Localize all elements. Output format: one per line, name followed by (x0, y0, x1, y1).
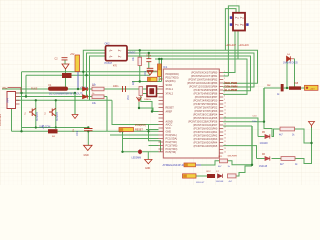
svg-text:+5V: +5V (159, 79, 164, 81)
hub resistor R3 label (133, 56, 135, 61)
wire chainB staircase (236, 166, 252, 176)
net label yellow top right (305, 85, 319, 90)
ground GND2 (145, 160, 152, 164)
svg-text:100n: 100n (146, 56, 152, 58)
svg-text:(PCINT24/RXD0)PD0: (PCINT24/RXD0)PD0 (193, 100, 218, 103)
svg-text:IC1: IC1 (163, 65, 168, 69)
svg-text:15: 15 (224, 120, 226, 122)
wire J2 pin4 down (237, 31, 239, 60)
svg-text:24: 24 (224, 152, 226, 154)
svg-text:17: 17 (224, 127, 226, 129)
svg-text:+5VDC: +5VDC (128, 53, 136, 55)
svg-text:PC0(SCL): PC0(SCL) (166, 134, 178, 137)
wire net bundle line 3 (90, 56, 251, 100)
adapter caption blue (49, 93, 83, 96)
svg-text:(PCINT8/XCK0/T0)PB0: (PCINT8/XCK0/T0)PB0 (191, 72, 218, 75)
chainB blue label (196, 182, 205, 184)
wire diode D4 parallel left leg (286, 59, 289, 88)
wire row y135 (110, 134, 159, 136)
svg-text:OK2: OK2 (105, 43, 111, 46)
LED LED1 label (132, 158, 142, 160)
svg-text:16: 16 (224, 124, 226, 126)
svg-text:(PCINT15/SCK)PB7: (PCINT15/SCK)PB7 (195, 96, 218, 99)
wire connector row0 (16, 92, 75, 94)
svg-text:PC6(RST): PC6(RST) (135, 124, 146, 127)
wire GND3 drop (74, 93, 76, 114)
svg-text:PC5(TDI): PC5(TDI) (166, 151, 177, 154)
crystal labels (133, 80, 135, 85)
wire emitter rail (22, 127, 89, 129)
connector J2 side labels (230, 16, 249, 26)
connector J1 pin stubs (16, 93, 20, 104)
wire blue label2 link (196, 164, 201, 166)
capacitor C1 mid row (123, 86, 126, 92)
wire row1 to row2 jog (295, 143, 312, 164)
transistor T2 (49, 108, 56, 116)
crystal caps C5 C6 (139, 87, 143, 96)
svg-text:GND: GND (84, 155, 89, 157)
hub capacitor C3 label (146, 56, 152, 58)
resistor R15 top right (289, 86, 301, 89)
wire mid row y75.2 (26, 74, 150, 76)
ground GND1 (84, 145, 93, 150)
regulator block power col (62, 73, 72, 78)
svg-text:22: 22 (224, 145, 226, 147)
svg-text:XTAL2: XTAL2 (166, 93, 174, 96)
svg-text:14: 14 (224, 117, 226, 119)
wire IC right pin y145.6 to D6 (223, 146, 256, 159)
crystal Q1 (147, 86, 157, 97)
supply label yellow vertical power col (75, 55, 80, 72)
blue vertical text x43.5 (43, 124, 45, 129)
svg-text:13: 13 (224, 113, 226, 115)
svg-text:BC547B: BC547B (56, 112, 59, 121)
svg-text:R15: R15 (294, 83, 299, 85)
svg-text:BC547B: BC547B (36, 112, 39, 121)
wire hub drop x139.75 (139, 50, 141, 81)
svg-text:(PCINT19/ADC3)PA3: (PCINT19/ADC3)PA3 (193, 138, 217, 141)
transistor T2 labels (56, 112, 59, 121)
red bracket above J1 (8, 88, 22, 92)
diode D1 power col (62, 64, 69, 69)
connector J1 name vertical (0, 114, 2, 126)
svg-text:▹⊢: ▹⊢ (109, 55, 112, 59)
vertical element label (277, 94, 280, 96)
svg-text:(PCINT16/ADC0)PA0: (PCINT16/ADC0)PA0 (193, 128, 217, 131)
wire connector row2 (16, 99, 112, 101)
net flag yellow horizontal hub (148, 77, 158, 81)
svg-text:16MHz: 16MHz (144, 99, 151, 101)
resistor R4 bottom rail (48, 129, 58, 133)
svg-text:(PCINT14/MISO)PB6: (PCINT14/MISO)PB6 (194, 93, 218, 96)
svg-text:GND-COM: GND-COM (39, 127, 50, 129)
wire R row1 right (295, 129, 312, 143)
svg-text:+24V: +24V (244, 45, 250, 47)
diode D4 label (283, 63, 298, 65)
resistor R12 chainB (207, 174, 215, 178)
resistor R11 chainA (220, 159, 228, 163)
svg-text:RESET: RESET (135, 129, 144, 132)
svg-text:(PCINT27/INT1)PD3: (PCINT27/INT1)PD3 (194, 110, 218, 113)
supply flag VCC x139 (137, 97, 142, 102)
net label PWM red row3 (225, 88, 238, 92)
svg-text:21: 21 (224, 141, 226, 143)
wire led branch vertical (123, 131, 139, 152)
svg-text:1N4148 DO35: 1N4148 DO35 (283, 63, 298, 65)
svg-text:GRN-PWM: GRN-PWM (225, 85, 238, 89)
IC U1 pin names left column (166, 73, 179, 154)
net label PWM red row1 (225, 81, 238, 85)
svg-text:VIN+: VIN+ (2, 87, 8, 90)
wire net bundle line 2 (87, 53, 255, 97)
diode D6 (265, 156, 270, 160)
svg-text:VCC: VCC (166, 127, 171, 130)
svg-text:10: 10 (224, 103, 226, 105)
svg-text:20: 20 (224, 138, 226, 140)
connector J1 inner label (7, 98, 10, 103)
net flag yellow vertical hub (158, 64, 162, 77)
resistor R2 red text (92, 93, 95, 95)
blue text above OK right (128, 53, 136, 55)
svg-text:⊢9: ⊢9 (235, 23, 239, 27)
wire T1 collector-emitter (35, 100, 37, 127)
svg-text:(PCINT26/INT0)PD2: (PCINT26/INT0)PD2 (194, 107, 218, 110)
wire net bundle line 4 (155, 59, 247, 94)
capacitor C2 power col (62, 58, 68, 60)
supply flag VCC label (128, 95, 130, 100)
ground GND2 text (145, 168, 150, 170)
svg-text:XTAL1: XTAL1 (166, 88, 174, 91)
wire bottom rail y131 (12, 130, 159, 132)
wire hub cap drop (148, 53, 150, 68)
svg-text:FUSE: FUSE (31, 88, 38, 91)
wire chainB left link (196, 175, 207, 177)
wire R row2 left (272, 158, 282, 160)
svg-text:VCC: VCC (128, 95, 130, 100)
svg-text:(PCINT10/INT2/AIN0)PB2: (PCINT10/INT2/AIN0)PB2 (188, 79, 218, 82)
svg-text:⊢9: ⊢9 (240, 23, 244, 27)
svg-text:11: 11 (224, 106, 226, 108)
resistor R14 labels (280, 164, 298, 166)
wire flag stem (311, 127, 313, 143)
resistor R2 (92, 95, 104, 99)
wire xtal gnd jog (141, 96, 152, 112)
chainB D7 red label (216, 171, 220, 173)
wire net VCC bundle line 1 (83, 50, 257, 89)
wire IC right pin y121.7 to riser (223, 121, 264, 123)
wire J2 pin3 down to IC (223, 31, 235, 73)
diode DA row1 left (83, 87, 88, 91)
svg-text:8: 8 (224, 96, 225, 98)
net label RESET red text (135, 124, 146, 132)
wire hub row y81.5 (132, 81, 162, 83)
hub tantal C4 (147, 68, 154, 75)
svg-text:⊢▹: ⊢▹ (118, 55, 121, 59)
wire D6 left (257, 158, 265, 160)
svg-text:100u: 100u (145, 70, 147, 76)
capacitor C1 red text (113, 85, 119, 88)
IC U1 body (163, 69, 219, 158)
svg-text:GND: GND (166, 131, 172, 134)
hub capacitor C3 (146, 59, 151, 62)
svg-text:(PCINT25/TXD0)PD1: (PCINT25/TXD0)PD1 (193, 103, 218, 106)
svg-text:(PCINT11/OC0A/AIN1)PB3: (PCINT11/OC0A/AIN1)PB3 (187, 82, 218, 85)
wire diode D4 parallel right leg (293, 59, 296, 88)
svg-text:SW-LGT: SW-LGT (196, 182, 205, 184)
IC U1 value label (163, 163, 189, 167)
wire vertical x21.5 (21, 72, 23, 132)
wire branch J2 vertical b (223, 6, 239, 76)
svg-text:100n: 100n (77, 130, 79, 136)
svg-text:1N4148: 1N4148 (259, 166, 268, 168)
svg-text:DC CONVERTER IN 9V(OUT): DC CONVERTER IN 9V(OUT) (49, 93, 83, 96)
wire riser x264 (263, 88, 265, 122)
net label yellow chainA (184, 163, 196, 167)
IC U1 pin numbers right (224, 71, 226, 154)
svg-text:(PCINT21/ADC5)PA5: (PCINT21/ADC5)PA5 (193, 145, 217, 148)
svg-text:(PCINT30/OC2B/ICP)PD6: (PCINT30/OC2B/ICP)PD6 (188, 121, 218, 124)
hub resistor R3 vertical (138, 57, 142, 65)
resistor R12 label red (207, 171, 212, 173)
wire blue supply drop x78 (77, 72, 79, 90)
svg-text:PC1(SDA): PC1(SDA) (166, 138, 178, 141)
connector J2 pin glyphs (235, 16, 244, 27)
wire connector row1 (16, 96, 107, 98)
wire input rail y89 (2, 88, 159, 90)
resistor R11 labels (218, 166, 231, 168)
vertical element top right (281, 84, 284, 91)
svg-text:SCK0: SCK0 (166, 84, 173, 87)
wire hub yellow vert drop (158, 59, 160, 82)
svg-text:(PCINT29/OC1A)PD5: (PCINT29/OC1A)PD5 (193, 117, 218, 120)
svg-text:PC3(TMS): PC3(TMS) (166, 145, 178, 148)
diode D7 chainB (218, 174, 223, 178)
resistor R1 label (92, 84, 97, 87)
diode D5 (265, 134, 270, 138)
wire riser2 x252 (251, 126, 253, 166)
resistor R1 red text (92, 85, 95, 87)
IC U1 left pin stubs (159, 87, 164, 152)
element pink chainB (228, 174, 237, 178)
crystal value red (144, 99, 151, 101)
svg-text:RED-PWM: RED-PWM (225, 81, 238, 85)
svg-text:(PCINT13/MOSI)PB5: (PCINT13/MOSI)PB5 (194, 89, 218, 92)
wire led row to IC (142, 151, 158, 153)
svg-text:23: 23 (224, 148, 226, 150)
IC U1 right pin stubs (219, 73, 223, 154)
capacitor C7 red label (73, 128, 75, 132)
wire vertical x26 (25, 75, 27, 96)
wire reset row from label (146, 129, 159, 131)
net label PWM red row2 (225, 85, 238, 89)
ground GND1 text (84, 155, 89, 157)
fuse F1 (48, 87, 68, 91)
svg-text:⊢4: ⊢4 (240, 16, 244, 20)
svg-text:(PCINT31/OC2A)PD7: (PCINT31/OC2A)PD7 (193, 124, 218, 127)
resistor R4 labels (39, 127, 50, 129)
net label yellow top right text (310, 89, 316, 91)
svg-text:SW-PWR: SW-PWR (228, 156, 238, 158)
resistor R13 row1 (280, 127, 295, 131)
wire xtal2 row (143, 93, 159, 95)
svg-text:+24V: +24V (231, 45, 237, 47)
svg-text:(PCINT12/OC0B/SS)PB4: (PCINT12/OC0B/SS)PB4 (189, 86, 218, 89)
svg-text:CON-PWR: CON-PWR (0, 114, 2, 126)
wire riser branch down (264, 122, 272, 137)
diode D5 labels (262, 132, 266, 134)
resistor R1 (92, 87, 104, 91)
svg-text:1N4148: 1N4148 (216, 181, 224, 183)
wire supply flag drop x139 (139, 102, 159, 112)
LED LED1 (138, 149, 142, 154)
hub label inner red text (151, 80, 155, 82)
hub cap blue vertical text (145, 70, 147, 76)
svg-text:▹⊢: ▹⊢ (109, 49, 112, 53)
transistor T1 (29, 108, 36, 116)
capacitor C7 between rails (84, 129, 93, 131)
wire connector pin4 down (12, 104, 17, 131)
diode D4 red label (287, 54, 291, 56)
net text near riser (253, 116, 258, 118)
svg-text:(PCINT17/ADC1)PA1: (PCINT17/ADC1)PA1 (193, 131, 217, 134)
wire cap C7 drop (87, 131, 89, 145)
resistor R13 labels (279, 135, 295, 137)
svg-text:(PCINT9/CLKO/T1)PB1: (PCINT9/CLKO/T1)PB1 (191, 75, 218, 78)
wire mid row y71.8 (22, 71, 158, 73)
connector J1 body (7, 92, 16, 109)
svg-text:+24V: +24V (310, 89, 316, 91)
hub red text VCC (152, 70, 157, 73)
wire chainA (201, 161, 220, 165)
svg-text:PD0(RXD0): PD0(RXD0) (166, 73, 179, 76)
optocoupler OK1 pins glyphs (109, 49, 121, 59)
svg-text:(PCINT18/ADC2)PA2: (PCINT18/ADC2)PA2 (193, 135, 217, 138)
svg-text:⊢4: ⊢4 (235, 16, 239, 20)
transistor T1 labels (36, 112, 39, 121)
top right red text (267, 83, 299, 87)
svg-text:AVCC: AVCC (166, 124, 173, 127)
net label yellow RESET row (119, 128, 134, 132)
capacitor C2 label (55, 53, 75, 61)
svg-text:AREF: AREF (166, 111, 173, 114)
wire mid vertical x107 (106, 97, 108, 132)
svg-text:1N4148: 1N4148 (260, 143, 269, 145)
wire jog vertical x148 (149, 125, 161, 152)
diode D4 top right (287, 56, 295, 61)
svg-text:PD1(TXD0): PD1(TXD0) (166, 77, 179, 80)
svg-text:RESET: RESET (166, 107, 175, 110)
small ground GND3 x75 (72, 115, 78, 119)
diode D6 labels (262, 154, 266, 156)
svg-text:(PCINT28/OC1B)PD4: (PCINT28/OC1B)PD4 (193, 114, 218, 117)
svg-text:VCC: VCC (152, 70, 157, 73)
svg-text:18: 18 (224, 131, 226, 133)
svg-text:EN(RX1): EN(RX1) (166, 80, 176, 83)
wire top right row y88 (264, 87, 305, 89)
red text right of hub label (159, 79, 164, 81)
svg-text:⊢▹: ⊢▹ (118, 49, 121, 53)
wire IC right pin y126 to riser2 (223, 125, 252, 127)
capacitor C7 label (77, 130, 79, 136)
diode DB row2 left (83, 95, 88, 99)
svg-text:12: 12 (224, 110, 226, 112)
wire led gnd stub (147, 152, 149, 160)
+5V blue text (80, 87, 88, 90)
supply flag bottom right (309, 122, 315, 128)
fuse F1 labels (2, 84, 52, 91)
svg-text:+5V: +5V (70, 53, 75, 56)
net label yellow chainB (183, 174, 197, 178)
connector J2 body top right (233, 13, 245, 31)
svg-text:BLU-PWM: BLU-PWM (225, 88, 238, 92)
wire chainA right (228, 161, 253, 165)
wire D5 row1 (258, 129, 280, 137)
wire branch J2 vertical a (225, 9, 236, 51)
wire power col diode branch (64, 60, 67, 89)
svg-text:PC2(TCK): PC2(TCK) (166, 141, 178, 144)
wire row y138.5 (123, 138, 159, 140)
svg-text:IN-4: IN-4 (7, 98, 10, 103)
optocoupler OK1 body (106, 46, 128, 61)
svg-text:100n: 100n (113, 85, 119, 88)
IC U1 name label (163, 65, 168, 69)
optocoupler OK1 labels (105, 43, 113, 66)
wire mid vertical x112 (112, 100, 159, 124)
svg-text:3: 3 (224, 78, 225, 80)
resistor R14 row2 (281, 157, 295, 161)
svg-text:9: 9 (224, 99, 225, 101)
wire hub to xtal (161, 59, 163, 82)
svg-text:7: 7 (224, 92, 225, 94)
svg-text:100n: 100n (252, 121, 258, 123)
svg-text:(PCINT20/ADC4)PA4: (PCINT20/ADC4)PA4 (193, 142, 217, 145)
connector J2 net texts below (226, 45, 250, 47)
IC U1 pin names right column (187, 72, 218, 149)
svg-text:2: 2 (224, 75, 225, 77)
svg-text:19: 19 (224, 134, 226, 136)
wire IC right pin y118 to D5 (223, 118, 258, 137)
svg-text:GND: GND (145, 168, 150, 170)
svg-text:1: 1 (224, 71, 225, 73)
wire row y145.5 (149, 145, 159, 147)
svg-text:LED5MM: LED5MM (132, 158, 142, 160)
red text 470 (113, 66, 118, 68)
wire T2 collector-emitter (55, 100, 57, 127)
chainB blue value labels (216, 181, 233, 183)
resistor R2 label (92, 102, 97, 105)
svg-text:PC817: PC817 (105, 62, 113, 65)
